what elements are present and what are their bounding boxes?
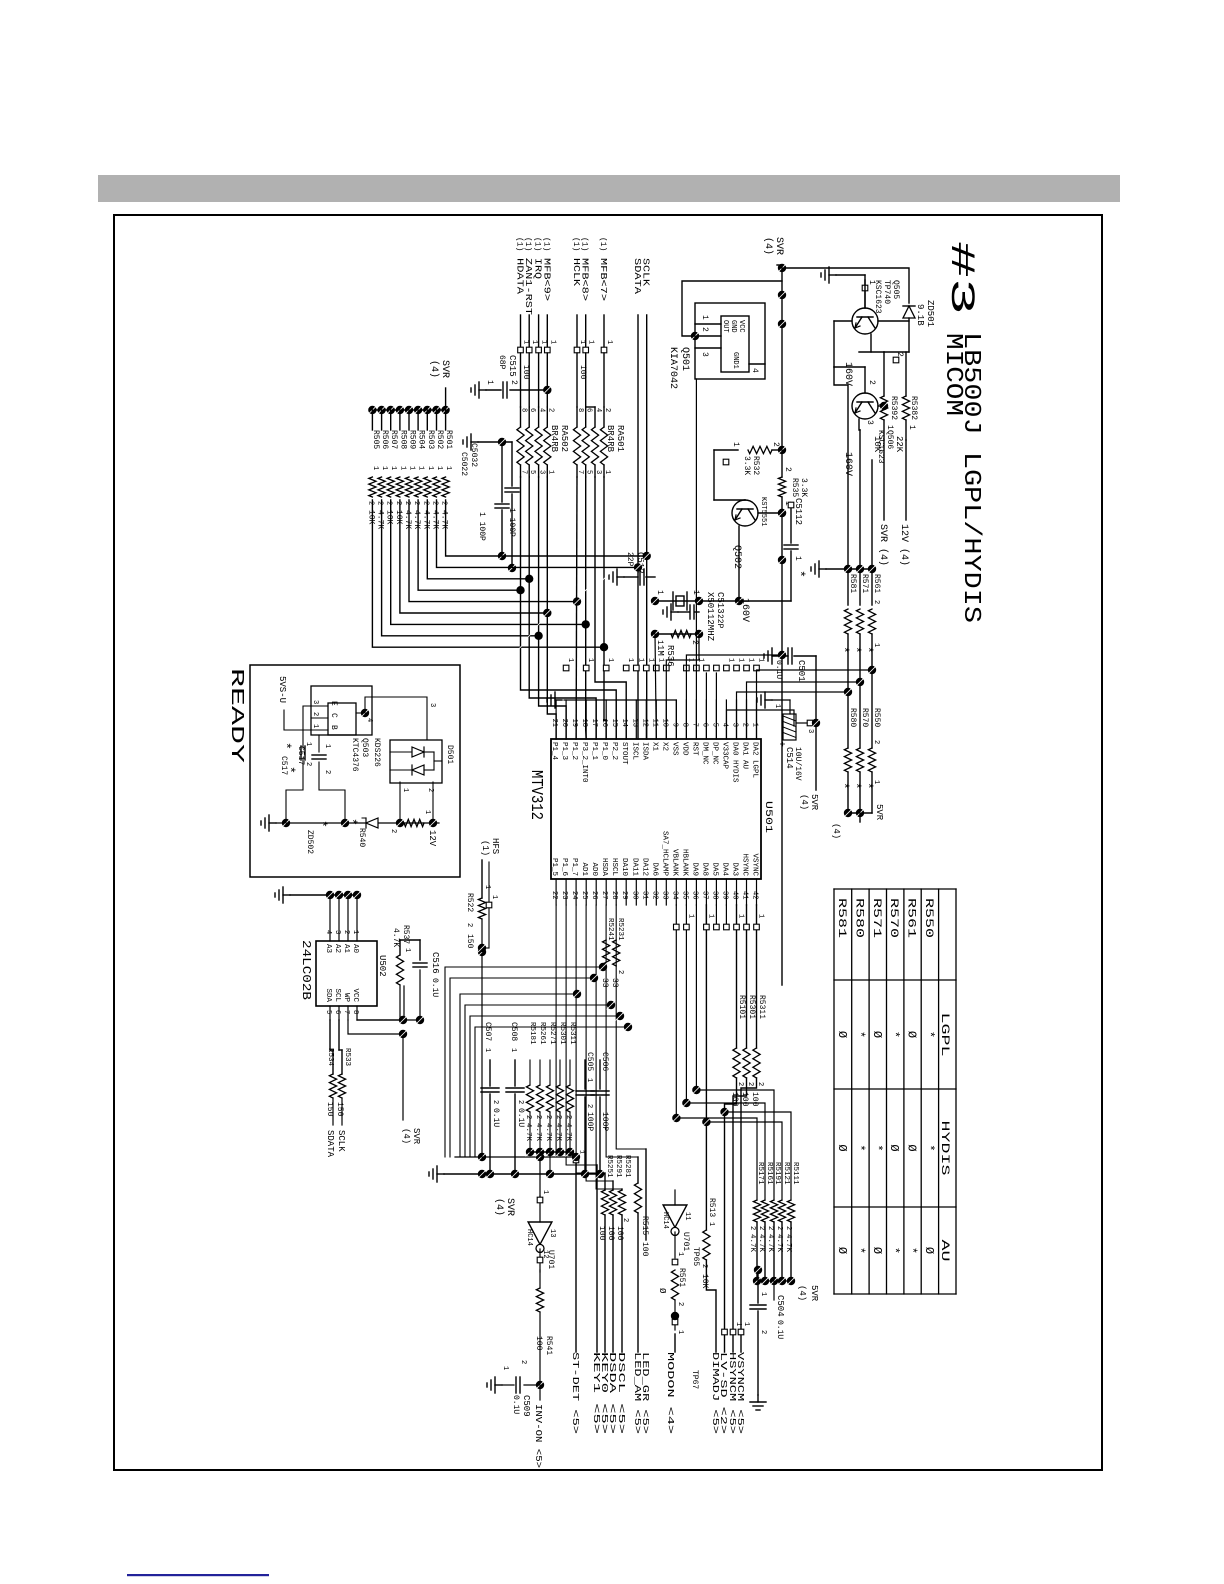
svg-text:4.7K: 4.7K — [748, 1234, 756, 1253]
svg-text:R535: R535 — [790, 478, 799, 497]
wire net ZAN1-RST — [529, 477, 596, 739]
svg-text:ZAN1-RST: ZAN1-RST — [523, 258, 533, 316]
svg-text:100: 100 — [750, 1092, 759, 1107]
wire 5VR rail v408 — [815, 656, 817, 790]
svg-text:MFB<9>: MFB<9> — [541, 258, 551, 301]
resistor R513 — [705, 905, 707, 1230]
svg-text:2: 2 — [342, 930, 350, 934]
svg-text:SVR: SVR — [504, 1198, 515, 1216]
svg-text:*: * — [282, 766, 297, 774]
svg-text:1: 1 — [401, 788, 409, 792]
svg-text:R581: R581 — [848, 574, 857, 593]
svg-text:2: 2 — [766, 1226, 774, 1230]
svg-text:19: 19 — [570, 719, 578, 727]
svg-text:DA0 HYDIS: DA0 HYDIS — [731, 742, 739, 783]
svg-text:100P: 100P — [600, 1112, 609, 1131]
ground ready — [269, 822, 276, 824]
svg-text:U701: U701 — [681, 1232, 690, 1251]
svg-text:DA10: DA10 — [620, 858, 628, 877]
svg-text:AD0: AD0 — [590, 862, 598, 876]
svg-text:TP65: TP65 — [691, 1247, 700, 1266]
transistor Q502 — [732, 500, 758, 526]
svg-text:2: 2 — [616, 970, 624, 974]
ground C5032 — [478, 441, 512, 443]
svg-text:P1_1: P1_1 — [590, 742, 598, 761]
svg-text:*: * — [852, 1031, 866, 1038]
svg-text:33: 33 — [610, 978, 619, 988]
svg-text:A2: A2 — [333, 944, 341, 953]
svg-text:DA11: DA11 — [630, 858, 638, 877]
svg-text:4.7K: 4.7K — [564, 1123, 572, 1142]
svg-text:(4): (4) — [428, 360, 440, 378]
svg-text:INV-ON <5>: INV-ON <5> — [533, 1404, 543, 1468]
svg-text:12: 12 — [541, 1250, 549, 1258]
svg-text:4.7K: 4.7K — [440, 510, 449, 529]
svg-text:R5161: R5161 — [765, 1162, 773, 1185]
svg-text:R570: R570 — [860, 708, 869, 727]
svg-text:2: 2 — [509, 380, 518, 385]
svg-text:2: 2 — [741, 723, 749, 727]
svg-text:VDD: VDD — [680, 742, 688, 756]
wire net HDATA — [521, 477, 617, 739]
svg-text:*: * — [887, 1031, 901, 1038]
svg-text:C504: C504 — [775, 1295, 785, 1317]
svg-text:68P: 68P — [497, 355, 506, 370]
ground Q505 cluster — [864, 275, 866, 308]
wire net HCLK — [575, 477, 578, 739]
svg-text:Ø: Ø — [870, 1031, 884, 1038]
svg-text:1: 1 — [483, 1048, 491, 1052]
svg-text:MTV312: MTV312 — [526, 770, 545, 820]
svg-text:2: 2 — [867, 380, 876, 385]
svg-text:1: 1 — [773, 704, 781, 708]
svg-text:*: * — [870, 1144, 884, 1151]
svg-text:P2_2: P2_2 — [610, 742, 618, 760]
wire branch elbows to bottom-left — [445, 967, 603, 1157]
svg-text:2: 2 — [585, 1104, 593, 1108]
svg-text:DA1 AU: DA1 AU — [741, 742, 749, 769]
svg-text:DA4: DA4 — [720, 862, 728, 876]
svg-text:20: 20 — [560, 719, 568, 727]
svg-text:R533: R533 — [343, 1048, 351, 1067]
svg-text:4.7K: 4.7K — [376, 510, 385, 529]
svg-text:R5171: R5171 — [756, 1162, 764, 1185]
svg-text:4.7K: 4.7K — [544, 1123, 552, 1142]
svg-text:1: 1 — [541, 1190, 549, 1194]
svg-text:GND: GND — [729, 320, 737, 333]
svg-text:1: 1 — [656, 658, 664, 662]
svg-text:37: 37 — [700, 891, 708, 899]
svg-text:2: 2 — [421, 501, 429, 505]
svg-text:C517: C517 — [296, 746, 305, 765]
svg-text:27: 27 — [600, 891, 608, 899]
svg-text:1: 1 — [747, 658, 755, 662]
ground U502 — [283, 894, 290, 896]
resistor R502 — [432, 406, 440, 414]
svg-text:(4): (4) — [831, 823, 841, 839]
svg-text:VCC: VCC — [351, 988, 359, 1002]
svg-text:100: 100 — [640, 1242, 649, 1257]
svg-text:1: 1 — [691, 590, 700, 595]
svg-text:8: 8 — [680, 723, 688, 727]
svg-text:R541: R541 — [544, 1336, 553, 1355]
svg-text:4.7K: 4.7K — [757, 1234, 765, 1253]
svg-text:READY: READY — [226, 668, 246, 763]
svg-text:3.3K: 3.3K — [799, 478, 808, 497]
svg-text:1: 1 — [655, 590, 664, 595]
svg-text:2: 2 — [524, 1115, 532, 1119]
wire pin7 RST to KIA7042 — [695, 379, 697, 739]
svg-text:1: 1 — [389, 466, 397, 470]
svg-text:1: 1 — [646, 658, 654, 662]
svg-text:1: 1 — [737, 658, 745, 662]
ground trio1 — [819, 568, 826, 570]
wire VCC U502 — [357, 986, 404, 1020]
svg-text:150: 150 — [335, 1102, 344, 1117]
svg-text:HSCL: HSCL — [610, 858, 618, 877]
svg-text:12: 12 — [640, 719, 648, 727]
svg-text:R506: R506 — [380, 430, 389, 449]
svg-text:R515: R515 — [640, 1216, 649, 1235]
resistor R506 — [377, 406, 385, 414]
svg-text:0.1U: 0.1U — [775, 1320, 784, 1339]
svg-text:1: 1 — [706, 914, 714, 918]
svg-text:R509: R509 — [408, 430, 417, 449]
svg-text:100P: 100P — [585, 1112, 594, 1131]
wire SVR rail — [781, 265, 783, 477]
svg-text:1: 1 — [483, 885, 491, 889]
svg-text:P1_6: P1_6 — [560, 858, 568, 877]
svg-text:R5251: R5251 — [605, 1155, 613, 1178]
svg-text:1: 1 — [676, 1330, 684, 1334]
svg-text:*: * — [836, 646, 851, 654]
capacitor C514 electrolytic — [783, 714, 796, 740]
wire inv2 input — [674, 1190, 676, 1205]
svg-text:10K: 10K — [385, 510, 394, 525]
ground C504 — [757, 1395, 759, 1402]
svg-text:2: 2 — [895, 352, 904, 357]
svg-text:R571: R571 — [870, 898, 882, 939]
svg-text:17: 17 — [590, 719, 598, 727]
svg-text:MODON <4>: MODON <4> — [665, 1352, 675, 1434]
svg-text:1: 1 — [907, 425, 916, 430]
transistor Q506 — [852, 393, 878, 419]
svg-text:1: 1 — [522, 340, 530, 344]
svg-text:1: 1 — [587, 340, 595, 344]
svg-text:(1): (1) — [533, 237, 542, 251]
svg-text:3: 3 — [865, 420, 874, 425]
svg-text:P1_0: P1_0 — [600, 742, 608, 761]
resistor R503 — [423, 406, 431, 414]
svg-text:1: 1 — [380, 466, 388, 470]
transistor Q503 box — [311, 686, 372, 735]
svg-text:1: 1 — [751, 723, 759, 727]
svg-text:3: 3 — [428, 703, 436, 707]
svg-text:DP_NC: DP_NC — [710, 742, 718, 765]
svg-text:D501: D501 — [445, 745, 454, 764]
wire net SCLK — [646, 315, 648, 739]
svg-text:1: 1 — [398, 466, 406, 470]
svg-text:1M: 1M — [655, 645, 665, 656]
svg-text:C: C — [329, 713, 338, 718]
svg-text:10K: 10K — [700, 1274, 709, 1289]
svg-text:7: 7 — [342, 1010, 350, 1014]
svg-text:2: 2 — [700, 327, 709, 332]
svg-text:C514: C514 — [784, 747, 794, 769]
svg-text:R537: R537 — [401, 925, 410, 944]
svg-text:LED_GR <5>: LED_GR <5> — [640, 1352, 650, 1434]
svg-text:0.1U: 0.1U — [430, 978, 439, 997]
svg-text:160V: 160V — [842, 362, 853, 386]
svg-text:1: 1 — [700, 315, 709, 320]
svg-text:R571: R571 — [860, 574, 869, 593]
svg-text:4: 4 — [324, 930, 332, 934]
svg-text:4.7K: 4.7K — [524, 1123, 532, 1142]
svg-text:2: 2 — [403, 501, 411, 505]
svg-text:VCC: VCC — [737, 320, 745, 333]
svg-text:TP740: TP740 — [882, 280, 891, 304]
svg-text:HSDA: HSDA — [600, 858, 608, 877]
svg-text:5VS-U: 5VS-U — [277, 676, 287, 703]
svg-text:C508: C508 — [509, 1022, 518, 1041]
diode D501 b — [412, 765, 424, 775]
svg-text:1: 1 — [509, 1048, 517, 1052]
zener ZD501 — [903, 306, 915, 318]
wire crystal to X pins — [655, 634, 656, 739]
svg-text:U502: U502 — [377, 955, 387, 977]
svg-text:2: 2 — [872, 600, 880, 604]
wire q503 pin4 to D501 — [356, 712, 365, 714]
svg-text:1 100P: 1 100P — [477, 512, 486, 541]
svg-text:2: 2 — [389, 829, 397, 833]
wire rail u1157 — [455, 1156, 575, 1158]
svg-text:2: 2 — [757, 1226, 765, 1230]
wire net SDATA — [637, 315, 639, 739]
svg-text:1: 1 — [417, 466, 425, 470]
svg-text:DA2 LGPL: DA2 LGPL — [751, 742, 759, 779]
resistor R501 — [441, 406, 449, 414]
svg-text:SDATA: SDATA — [632, 258, 642, 295]
svg-text:3: 3 — [731, 723, 739, 727]
svg-text:BR4RB: BR4RB — [549, 425, 559, 453]
svg-text:1: 1 — [605, 340, 613, 344]
svg-text:1: 1 — [311, 724, 319, 728]
svg-text:R504: R504 — [417, 430, 426, 449]
svg-text:SVR (4): SVR (4) — [877, 524, 889, 566]
svg-text:C515: C515 — [507, 355, 517, 377]
wire to 12V — [905, 440, 907, 520]
svg-text:DA3: DA3 — [731, 862, 739, 876]
wire net MFB<7> — [603, 477, 605, 720]
ic Q501 KIA7042 outer box — [695, 303, 765, 379]
wire trio1-trio2 link — [871, 670, 873, 748]
svg-text:5: 5 — [710, 723, 718, 727]
svg-text:VSS: VSS — [670, 742, 678, 756]
svg-text:AU: AU — [938, 1240, 950, 1262]
svg-text:C5112: C5112 — [793, 498, 803, 525]
svg-text:41: 41 — [741, 891, 749, 899]
svg-text:Q502: Q502 — [731, 545, 742, 569]
svg-text:1: 1 — [867, 280, 876, 285]
ground bottom rail — [437, 1173, 444, 1175]
wire extensions right pins + pads — [695, 905, 697, 1090]
svg-text:HBLANK: HBLANK — [680, 849, 688, 877]
crystal X501 — [686, 592, 688, 610]
svg-text:IRQ: IRQ — [533, 258, 543, 279]
svg-text:5: 5 — [324, 1010, 332, 1014]
svg-text:R5231: R5231 — [616, 918, 624, 941]
svg-text:29: 29 — [620, 891, 628, 899]
svg-text:R5121: R5121 — [782, 1162, 790, 1185]
svg-text:3: 3 — [806, 729, 814, 733]
svg-text:*: * — [922, 1031, 936, 1038]
wire R507 to net — [391, 500, 586, 624]
svg-text:DIMADJ <5>: DIMADJ <5> — [710, 1352, 720, 1434]
svg-text:5VR: 5VR — [809, 794, 819, 811]
wire trio1 feeds — [871, 460, 873, 605]
svg-text:4.7K: 4.7K — [554, 1123, 562, 1142]
svg-text:#3: #3 — [941, 241, 979, 315]
svg-text:4.7K: 4.7K — [766, 1234, 774, 1253]
svg-text:1: 1 — [757, 914, 765, 918]
svg-text:4: 4 — [365, 718, 373, 722]
svg-text:1: 1 — [371, 466, 379, 470]
svg-text:(4): (4) — [799, 794, 809, 810]
op-amp U701 inverter A — [528, 1222, 552, 1244]
capacitor C509 — [524, 1384, 540, 1386]
svg-text:0.1U: 0.1U — [516, 1108, 525, 1127]
wire trio2 right ends — [848, 812, 872, 814]
resistor R508 — [396, 406, 404, 414]
wire r511 bank join — [757, 1280, 791, 1282]
svg-text:DA6: DA6 — [650, 862, 658, 876]
wire to SVR — [883, 440, 885, 520]
svg-text:R550: R550 — [872, 708, 881, 727]
svg-text:15: 15 — [610, 719, 618, 727]
ground rail U502 — [290, 894, 360, 896]
svg-text:*: * — [344, 818, 359, 826]
svg-text:1: 1 — [426, 466, 434, 470]
svg-text:14: 14 — [620, 719, 628, 727]
svg-text:5VR: 5VR — [809, 1285, 819, 1302]
zener ZD502 — [366, 818, 378, 828]
svg-text:X501: X501 — [705, 592, 715, 614]
svg-text:KST5551: KST5551 — [759, 497, 767, 526]
svg-text:P3_2_INT0: P3_2_INT0 — [580, 742, 588, 783]
svg-text:4.7K: 4.7K — [403, 510, 412, 529]
svg-text:35: 35 — [680, 891, 688, 899]
svg-text:A3: A3 — [324, 944, 332, 954]
svg-text:C513: C513 — [715, 592, 725, 614]
svg-text:RA501: RA501 — [615, 425, 625, 452]
svg-text:24LC02B: 24LC02B — [299, 940, 313, 1000]
svg-text:1: 1 — [444, 466, 452, 470]
svg-text:1: 1 — [540, 340, 548, 344]
svg-text:1: 1 — [323, 744, 331, 748]
svg-text:4.7K: 4.7K — [534, 1123, 542, 1142]
svg-text:R5281: R5281 — [623, 1155, 631, 1178]
svg-text:TP67: TP67 — [690, 1370, 699, 1389]
svg-text:*: * — [887, 1247, 901, 1254]
svg-text:9: 9 — [670, 723, 678, 727]
svg-text:R532: R532 — [751, 456, 760, 475]
wire zd to R5382 — [883, 352, 885, 396]
svg-text:HDATA: HDATA — [515, 258, 525, 295]
svg-text:C509: C509 — [521, 1395, 531, 1417]
svg-text:25: 25 — [580, 891, 588, 899]
svg-text:VBLANK: VBLANK — [670, 849, 678, 877]
svg-text:SVR: SVR — [411, 1128, 421, 1145]
wire R506 to net — [382, 500, 539, 636]
ground rail bottom — [444, 1173, 604, 1175]
svg-text:(1): (1) — [480, 840, 490, 856]
svg-text:Ø: Ø — [870, 1247, 884, 1254]
svg-text:DA8: DA8 — [700, 862, 708, 876]
svg-text:Q505: Q505 — [891, 280, 900, 299]
svg-text:B: B — [329, 725, 338, 730]
resistor R536 — [671, 630, 691, 637]
resistor R505 — [368, 406, 376, 414]
resistor R509 — [405, 406, 413, 414]
svg-text:23: 23 — [560, 891, 568, 899]
svg-text:4.7K: 4.7K — [431, 510, 440, 529]
svg-text:DSCL <5>: DSCL <5> — [616, 1352, 626, 1434]
svg-text:1: 1 — [501, 1366, 509, 1370]
svg-text:C507: C507 — [483, 1022, 492, 1041]
svg-text:2: 2 — [412, 501, 420, 505]
wire bottom bank to labels — [621, 1215, 623, 1352]
svg-text:R580: R580 — [852, 898, 864, 938]
wire net MFB<8> — [585, 477, 587, 730]
diode D501 box — [390, 740, 442, 783]
svg-text:X1: X1 — [650, 742, 658, 752]
svg-text:R522: R522 — [465, 893, 474, 912]
wire R501 to net — [446, 500, 647, 556]
wire net ra501-4 — [595, 477, 626, 739]
wire staircase bottom nets — [556, 905, 576, 1157]
svg-text:SCLK: SCLK — [336, 1130, 346, 1152]
svg-text:2: 2 — [311, 712, 319, 716]
svg-text:1: 1 — [731, 442, 740, 447]
svg-text:ZD502: ZD502 — [305, 830, 314, 854]
svg-text:AD1: AD1 — [580, 862, 588, 876]
svg-text:R5271: R5271 — [548, 1022, 556, 1045]
svg-text:40: 40 — [731, 891, 739, 899]
svg-text:9.1B: 9.1B — [915, 304, 925, 326]
svg-text:1: 1 — [423, 810, 431, 814]
wire hfs riser — [482, 947, 489, 949]
svg-text:R5241: R5241 — [606, 918, 614, 941]
wire SVR stub to bank rail — [445, 388, 447, 410]
svg-text:HYDIS: HYDIS — [938, 1121, 950, 1177]
svg-text:(1): (1) — [598, 237, 607, 251]
header gray bar — [98, 175, 1120, 202]
wire xtal right — [655, 633, 699, 635]
pads left pins U501 — [754, 665, 760, 671]
wire r532 to q502 — [714, 449, 738, 451]
svg-text:RA502: RA502 — [559, 425, 569, 452]
wire VSYNC net — [756, 905, 758, 1048]
svg-text:R540: R540 — [357, 828, 366, 847]
svg-text:SCLK: SCLK — [641, 258, 651, 287]
svg-text:1: 1 — [351, 930, 359, 934]
wire 5VR bank rail — [372, 409, 445, 411]
svg-text:GND1: GND1 — [731, 352, 739, 369]
svg-text:Q503: Q503 — [360, 738, 369, 757]
resistor R504 — [414, 406, 422, 414]
svg-text:1: 1 — [742, 1322, 750, 1326]
svg-text:R5301: R5301 — [747, 995, 756, 1019]
